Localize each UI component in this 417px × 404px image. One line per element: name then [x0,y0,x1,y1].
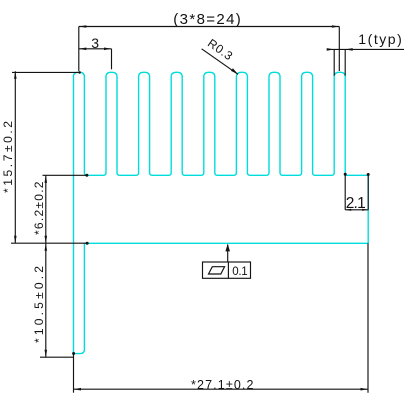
svg-text:*27.1±0.2: *27.1±0.2 [191,378,254,392]
arrowheads dimension 27.1 [74,388,82,391]
flatness frame divider [227,262,229,278]
dimension 6.2 top extension [43,174,88,176]
flatness leader [227,245,229,263]
dimension (3*8=24) right extension [338,27,340,72]
svg-text:*15.7±0.2: *15.7±0.2 [1,121,15,193]
arrowhead leader R0.3 [231,68,238,74]
dimension 1(typ) right extension [344,49,346,75]
arrowheads dimension 1(typ) outside [327,48,335,51]
flatness frame box [203,262,251,278]
arrowheads dimension 24 [79,25,87,28]
svg-text:*10.5±0.2: *10.5±0.2 [32,266,46,343]
dimension 3 line [79,48,112,50]
shared bottom extension 15.7/6.2/10.5 [11,242,88,244]
dimension 2.1 left extension [344,174,346,210]
dimension 3 right extension [111,49,113,70]
svg-text:0.1: 0.1 [232,266,248,278]
dimension 1(typ) left extension [333,49,335,75]
extension end dots [78,71,81,74]
svg-text:(3*8=24): (3*8=24) [173,11,241,28]
dimension 27.1 right extension [367,243,369,392]
dimension 2.1 right extension [367,174,369,210]
svg-text:1(typ): 1(typ) [358,31,402,47]
svg-text:3: 3 [91,35,99,51]
leader R0.3 [202,49,238,75]
dimension 27.1 left extension [73,353,75,393]
arrowheads dimension 10.5 [45,243,48,251]
dimension (3*8=24) left extension [78,27,80,71]
dimension 27.1 line [74,388,369,390]
arrowheads dimension 3 [79,48,87,51]
dimension (3*8=24) line [79,26,340,28]
dimension 6.2 line [45,175,47,243]
dimension 15.7 line [14,71,16,243]
svg-text:2.1: 2.1 [346,195,366,212]
arrowheads dimension 15.7 [14,71,17,79]
flatness parallelogram symbol [209,267,225,274]
arrowhead flatness leader [225,244,230,252]
dimension 10.5 bottom extension [40,356,74,358]
dimension 10.5 line [45,243,47,357]
arrowheads dimension 2.1 [345,209,351,211]
dimension 2.1 line [345,209,368,211]
arrowheads dimension 6.2 [45,175,48,183]
dimension 15.7 top extension [12,71,80,73]
heatsink profile outline [73,72,368,353]
dimension 1(typ) line [328,48,404,50]
